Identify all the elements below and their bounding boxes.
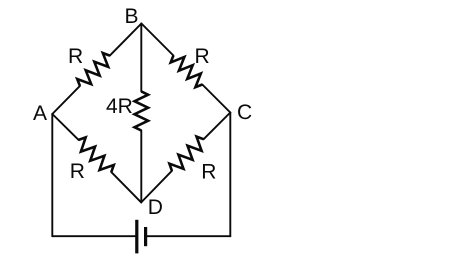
wire resistor to D (arm AD lead) xyxy=(111,172,141,202)
wire C to resistor (arm CD lead) xyxy=(204,113,231,140)
svg-text:R: R xyxy=(201,160,216,183)
resistor R1 (arm AB) xyxy=(77,53,110,86)
svg-text:A: A xyxy=(33,102,47,125)
wire A down to bottom rail xyxy=(51,114,53,236)
svg-text:R: R xyxy=(70,160,85,183)
resistor R3 (arm AD) xyxy=(79,137,114,172)
svg-text:B: B xyxy=(125,5,139,28)
wire resistor to B (arm AB lead) xyxy=(110,24,142,56)
svg-text:D: D xyxy=(148,196,163,219)
wire A to resistor (arm AB lead) xyxy=(52,24,230,237)
resistor R2 (arm BC) xyxy=(171,56,203,88)
wire middle resistor down to D xyxy=(140,131,142,203)
resistor 4R (middle branch B-D) xyxy=(135,91,149,130)
wire C down to bottom rail xyxy=(229,113,231,237)
wire A to resistor (arm AD lead) xyxy=(52,114,78,140)
battery long plate (left) xyxy=(135,220,138,254)
wire resistor to C (arm BC lead) xyxy=(202,85,230,113)
svg-text:4R: 4R xyxy=(106,95,133,118)
wire B down to middle resistor xyxy=(140,24,142,92)
resistor R4 (arm CD) xyxy=(169,137,203,171)
wire B to resistor (arm BC lead) xyxy=(141,24,173,56)
svg-text:C: C xyxy=(237,101,252,124)
svg-text:R: R xyxy=(68,45,83,68)
svg-text:R: R xyxy=(195,45,210,68)
wire battery to bottom rail right xyxy=(147,235,230,237)
wire resistor to D (arm CD lead) xyxy=(141,171,172,203)
battery short plate (right) xyxy=(144,227,147,246)
wire bottom rail left to battery xyxy=(52,235,135,237)
